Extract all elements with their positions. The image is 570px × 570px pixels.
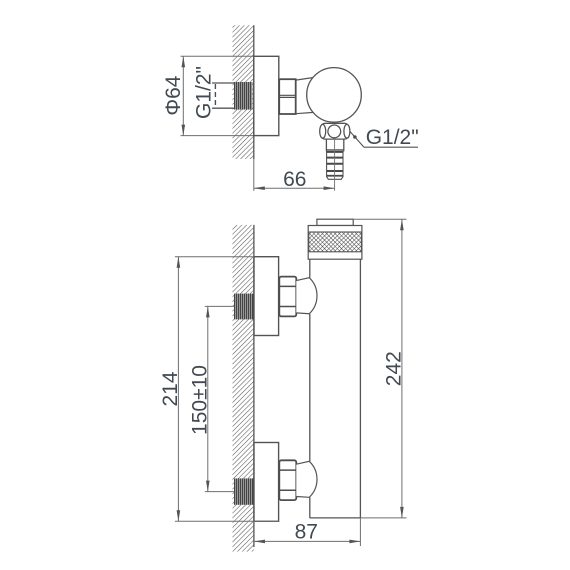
outlet valve block under ball (320, 123, 350, 139)
svg-text:66: 66 (283, 168, 306, 191)
escutcheon (lower) (254, 443, 279, 522)
eccentric cone (lower) (296, 461, 317, 497)
escutcheon flange (top view) (254, 56, 279, 135)
centerline of outlet (334, 140, 336, 191)
union nut (lower) (279, 460, 296, 500)
dimension 66 (254, 159, 335, 191)
knurled ring (309, 232, 362, 252)
dimension 87 (254, 518, 360, 546)
mixer body (side view) (310, 259, 361, 518)
extension lines for Φ64 (escutcheon top/bottom edges extended left) (181, 55, 254, 57)
ball body (top view of handle/body) (307, 68, 362, 123)
dimension 242 (353, 219, 406, 518)
dimension 150±10 (189, 306, 234, 491)
eccentric cone (upper) (296, 278, 317, 314)
svg-text:G1/2": G1/2" (366, 126, 419, 149)
thread in wall (upper eccentric union) (234, 294, 254, 320)
dimension Φ64 (162, 56, 185, 135)
wall section (top view) hatched band (233, 25, 254, 159)
svg-text:242: 242 (383, 351, 406, 386)
thread G1/2 in wall (top view) (234, 82, 252, 110)
dimension 214 (159, 257, 279, 522)
hose barb outlet (327, 151, 343, 179)
body top cap (308, 219, 362, 259)
escutcheon (upper) (254, 257, 279, 336)
wall section (side view) hatched band (233, 225, 254, 552)
outlet neck (326, 139, 343, 151)
union nut (top view) (279, 79, 296, 114)
svg-text:G1/2": G1/2" (193, 66, 216, 119)
leader line for G1/2 outlet (350, 131, 418, 147)
svg-text:150±10: 150±10 (189, 365, 212, 435)
svg-text:Φ64: Φ64 (162, 75, 185, 115)
thread in wall (lower eccentric union) (234, 478, 254, 504)
connector between nut and ball (296, 78, 314, 114)
union nut (upper) (279, 277, 296, 317)
svg-text:87: 87 (295, 521, 318, 544)
svg-text:214: 214 (159, 371, 182, 406)
thread minor diameter dashed line (214, 84, 216, 107)
wall supply pipe (top view) (212, 83, 252, 108)
